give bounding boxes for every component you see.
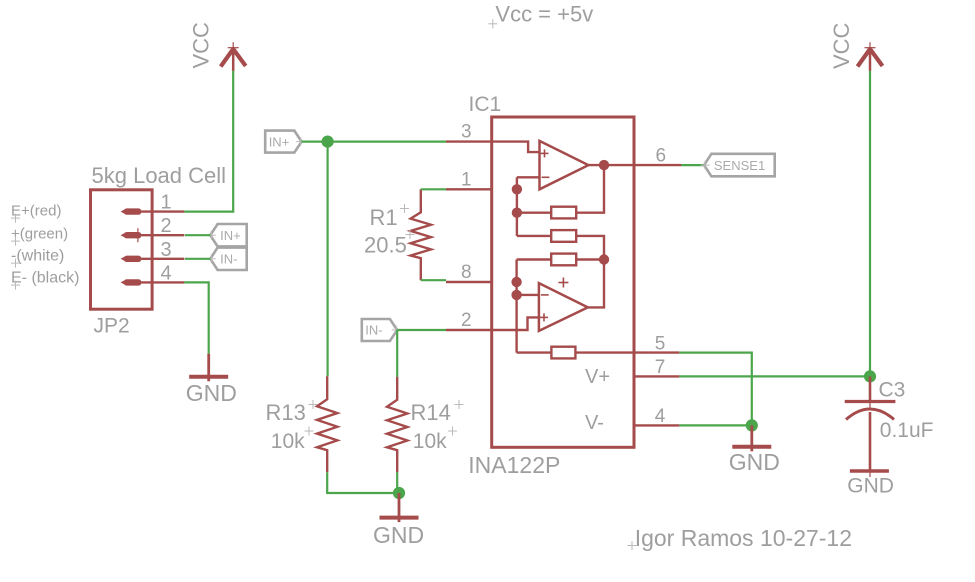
label JP2 xyxy=(94,315,130,338)
junction (C3/VCC node) xyxy=(864,370,876,382)
svg-text:0.1uF: 0.1uF xyxy=(880,419,934,442)
JP2 pin 3 xyxy=(121,239,184,262)
label -(white) xyxy=(11,248,64,268)
wire pin3 to op-amp A + input xyxy=(492,142,549,158)
label V+ xyxy=(585,366,610,388)
op-amp IC1 outline xyxy=(492,117,634,447)
svg-text:VCC: VCC xyxy=(189,22,214,69)
net flag IN- (to IC1 pin2) xyxy=(362,319,401,341)
svg-text:IN-: IN- xyxy=(365,323,382,338)
label 20.5 xyxy=(364,230,415,258)
label VCC (left, rotated) xyxy=(189,22,214,69)
svg-text:R13: R13 xyxy=(266,400,306,425)
svg-text:7: 7 xyxy=(655,357,666,378)
op-amp B + label xyxy=(558,278,568,288)
label R1 xyxy=(370,204,410,230)
svg-text:E+(red): E+(red) xyxy=(11,203,61,220)
wire Rd left xyxy=(517,351,552,353)
svg-text:-(white): -(white) xyxy=(11,248,64,265)
IC1 pin 4 xyxy=(634,406,679,427)
power flag VCC (left) xyxy=(221,42,246,71)
svg-text:3: 3 xyxy=(461,122,472,143)
ground GND (below C3) xyxy=(847,471,894,498)
wire internal left vertical (top) xyxy=(516,177,518,236)
svg-text:6: 6 xyxy=(656,146,667,167)
JP2 pin 4 xyxy=(121,262,184,285)
junction (pin1 node) xyxy=(512,184,522,194)
wire pin5 to GND node xyxy=(679,353,751,426)
label C3 xyxy=(879,378,906,401)
IC1 pin 6 xyxy=(634,146,681,167)
net flag IN+ (at JP2 pin2) xyxy=(207,224,247,246)
svg-text:1: 1 xyxy=(161,192,172,214)
svg-text:GND: GND xyxy=(729,449,780,475)
IC1 pin 3 xyxy=(446,122,492,143)
junction (Ra node) xyxy=(512,208,522,218)
resistor Ra (internal) xyxy=(551,207,576,219)
wire R1 top to IC1 pin1 xyxy=(421,188,446,190)
wire Rd right to pin5 xyxy=(575,351,634,353)
wire R13 bottom to GND node xyxy=(327,472,399,493)
svg-text:8: 8 xyxy=(461,262,472,283)
IC1 pin 8 xyxy=(446,262,492,283)
label +(green) xyxy=(11,226,68,246)
wire IN- to IC1 pin2 xyxy=(397,329,446,331)
svg-text:4: 4 xyxy=(655,406,666,427)
op-amp A - input stub xyxy=(517,176,550,178)
junction (R13/R14 GND node) xyxy=(393,487,405,499)
junction (op-amp B - node) xyxy=(511,290,521,300)
IC1 pin 5 xyxy=(634,334,679,355)
resistor Rd (internal) xyxy=(551,347,575,359)
svg-text:INA122P: INA122P xyxy=(468,452,560,478)
net flag IN- (at JP2 pin3) xyxy=(207,248,247,270)
JP2 pin 2 xyxy=(121,215,184,242)
svg-text:+(green): +(green) xyxy=(11,226,68,243)
svg-text:SENSE1: SENSE1 xyxy=(714,158,765,173)
wire R14 bottom to GND node xyxy=(396,472,398,493)
svg-text:Igor Ramos 10-27-12: Igor Ramos 10-27-12 xyxy=(635,525,852,551)
svg-text:V+: V+ xyxy=(585,366,610,388)
label IC1 xyxy=(469,93,502,116)
svg-text:5kg Load Cell: 5kg Load Cell xyxy=(92,163,227,188)
svg-text:3: 3 xyxy=(161,239,172,261)
svg-text:V-: V- xyxy=(585,412,604,434)
wire internal left vertical (mid) xyxy=(515,260,517,353)
label VCC (right, rotated) xyxy=(829,22,854,69)
wire op-amp A output to pin6 xyxy=(588,164,634,166)
svg-text:IN-: IN- xyxy=(220,251,237,266)
connector JP2 outline xyxy=(91,190,153,309)
wire Rc left xyxy=(517,258,552,260)
svg-text:10k: 10k xyxy=(271,430,305,453)
label E- (black) xyxy=(11,270,79,290)
label 5kg Load Cell xyxy=(92,163,227,188)
svg-text:E- (black): E- (black) xyxy=(11,270,79,287)
label Igor Ramos 10-27-12 xyxy=(628,525,853,551)
label 10k (R14) xyxy=(413,427,457,454)
op-amp B - input stub xyxy=(517,294,549,296)
wire Ra left xyxy=(517,211,551,213)
svg-text:4: 4 xyxy=(161,262,172,284)
resistor R1 xyxy=(411,189,431,280)
junction (Rc/output node) xyxy=(599,254,609,264)
svg-text:IN+: IN+ xyxy=(220,228,241,243)
resistor R13 xyxy=(317,376,337,472)
svg-text:JP2: JP2 xyxy=(94,315,130,338)
wire VCC down to C3 node xyxy=(869,71,871,377)
ground GND (below JP2) xyxy=(186,354,237,406)
label V- xyxy=(585,412,604,434)
wire Rc right xyxy=(576,258,604,260)
resistor Rc (internal) xyxy=(551,254,576,266)
wire IN- down to R14 xyxy=(396,330,398,377)
wire IN+ to IC1 pin3 xyxy=(302,141,446,143)
net flag IN+ (to IC1 pin3) xyxy=(265,131,305,153)
op-amp A (top) triangle xyxy=(540,141,589,189)
svg-text:Vcc = +5v: Vcc = +5v xyxy=(495,2,593,27)
wire JP2 pin4 to GND xyxy=(184,282,208,353)
svg-text:IC1: IC1 xyxy=(469,93,502,116)
IC1 pin 7 xyxy=(634,357,679,378)
wire JP2 pin2 to IN+ flag xyxy=(185,234,210,236)
svg-text:GND: GND xyxy=(373,522,424,548)
net flag SENSE1 xyxy=(701,154,775,177)
junction (op-amp A output) xyxy=(599,160,609,170)
ground GND (below R13/R14) xyxy=(373,493,424,548)
wire pin7 to VCC/C3 xyxy=(679,375,870,377)
svg-text:2: 2 xyxy=(461,310,472,331)
wire IN+ node down to R13 xyxy=(327,142,329,377)
resistor Rb (internal) xyxy=(551,230,576,242)
label R14 xyxy=(411,400,464,425)
wire pin2 to op-amp B + input xyxy=(492,313,548,330)
label R13 xyxy=(266,400,318,425)
svg-text:20.5: 20.5 xyxy=(364,233,407,258)
wire pin4 to GND node xyxy=(679,424,751,426)
wire R1 bottom to IC1 pin8 xyxy=(421,279,446,281)
ground GND (right of IC1) xyxy=(729,425,780,475)
wire VCC to JP2 pin1 xyxy=(184,71,233,212)
wire pin6 to SENSE1 xyxy=(681,164,704,166)
capacitor C3 xyxy=(845,376,896,470)
svg-text:R1: R1 xyxy=(370,205,398,230)
junction (pin8 node) xyxy=(511,277,521,287)
label 0.1uF xyxy=(880,419,934,442)
svg-text:5: 5 xyxy=(655,334,666,355)
svg-text:1: 1 xyxy=(461,169,472,190)
label E+(red) xyxy=(11,203,61,223)
svg-text:2: 2 xyxy=(161,215,172,237)
label Vcc = +5v xyxy=(488,2,593,29)
svg-text:C3: C3 xyxy=(879,378,906,401)
JP2 pin 1 xyxy=(121,192,184,215)
power flag VCC (right) xyxy=(858,42,883,71)
IC1 pin 2 xyxy=(446,310,492,331)
resistor R14 xyxy=(387,377,407,472)
svg-text:GND: GND xyxy=(186,380,237,406)
IC1 pin 1 xyxy=(446,169,492,190)
op-amp B (bottom) triangle xyxy=(539,283,588,331)
wire Rb right down xyxy=(576,236,604,260)
junction (pin4/pin5 GND node) xyxy=(746,419,758,431)
svg-text:VCC: VCC xyxy=(829,22,854,69)
svg-text:10k: 10k xyxy=(413,430,447,453)
svg-text:IN+: IN+ xyxy=(269,134,290,149)
wire Ra right to output xyxy=(576,165,604,213)
junction (IN+ node) xyxy=(322,136,334,148)
svg-text:GND: GND xyxy=(847,475,894,498)
wire op-amp B output up xyxy=(588,260,604,308)
wire Rb left xyxy=(517,235,551,237)
label 10k (R13) xyxy=(271,427,314,454)
wire JP2 pin3 to IN- flag xyxy=(185,258,210,260)
label INA122P xyxy=(468,452,560,478)
svg-text:R14: R14 xyxy=(411,400,451,425)
